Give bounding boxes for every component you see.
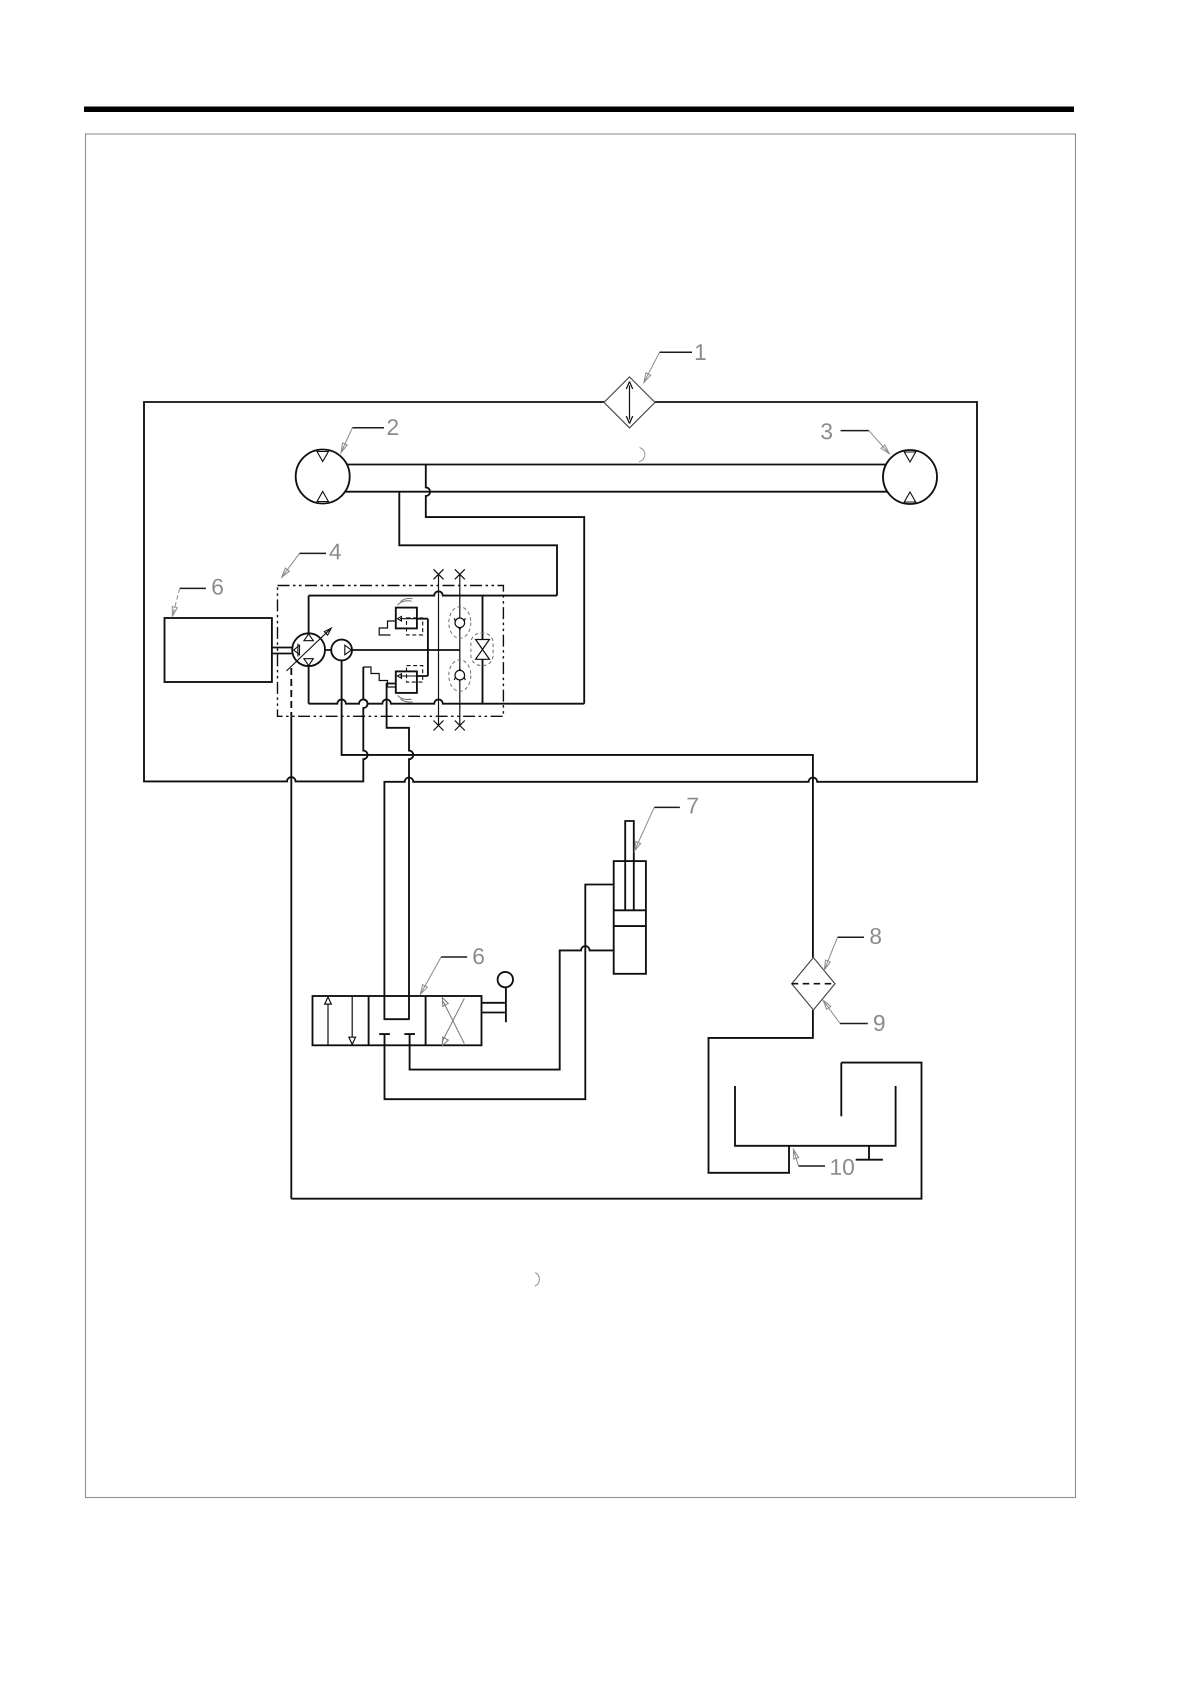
leader 7 arrowhead (634, 842, 640, 852)
leader 1 line (660, 351, 693, 353)
tank 10 basin (735, 1086, 896, 1146)
valve block inner left edge (308, 596, 310, 704)
test line left with X plugs (434, 569, 444, 730)
filter 8 diamond (792, 958, 835, 1011)
shutoff valve line (482, 596, 484, 704)
leader 10 pointer (793, 1149, 798, 1166)
wire pump outlet (325, 649, 460, 651)
motor 3 (883, 450, 937, 504)
label 4 (329, 544, 341, 560)
valve 6 right envelope crossed arrows (442, 998, 464, 1046)
leader 10 arrowhead (793, 1149, 798, 1159)
leader 10 line (799, 1165, 826, 1167)
cylinder 7 piston (614, 910, 646, 926)
test line right with X plugs (455, 569, 465, 730)
leader 3 pointer (869, 431, 890, 454)
leader 4 arrowhead (282, 568, 290, 577)
tank 10 inlet pipe (840, 1063, 842, 1117)
leader 6 valve pointer (420, 957, 441, 994)
leader 6 engine pointer (172, 588, 179, 616)
charge pump triangle (345, 645, 352, 655)
wire motor bottom line (345, 491, 888, 493)
wire valve A to cylinder cap (385, 885, 614, 1100)
check valve bottom seat (454, 669, 465, 680)
motor 2 (296, 450, 350, 504)
tank 10 vent (856, 1146, 883, 1160)
component 4 boundary dash-dot box (278, 586, 504, 717)
gauge circle (498, 972, 513, 987)
check valve bottom dashed ellipse (449, 660, 471, 692)
leader 6 engine arrowhead (172, 607, 177, 617)
relief valve top pilot box dashed (407, 618, 423, 635)
pump P1 triangles (304, 634, 313, 666)
leader 2 pointer (341, 428, 352, 453)
valve 6 left envelope arrows (325, 996, 356, 1045)
relief valve top adjust squiggle (398, 598, 413, 605)
cylinder 7 rod (625, 821, 634, 910)
leader 1 arrowhead (644, 373, 651, 383)
filter 1 diamond (604, 377, 655, 428)
leader 1 pointer (644, 352, 660, 382)
pump variable arrow (286, 628, 331, 671)
check valve top seat (454, 618, 465, 629)
label 1 (696, 344, 706, 360)
filter 1 arrow (626, 382, 632, 424)
relief valve bottom arrow (397, 674, 417, 679)
leader 6 valve line (441, 956, 467, 958)
page border frame (86, 134, 1076, 1498)
stray arc near motor line (639, 448, 645, 462)
stray paren glyph (535, 1273, 540, 1287)
label 3 (821, 423, 832, 439)
relief valve bottom spring (363, 667, 396, 687)
drive shaft (272, 648, 293, 654)
leader 9 line (840, 1023, 868, 1025)
leader 4 pointer (282, 553, 300, 577)
leader 2 arrowhead (341, 443, 347, 453)
cylinder 7 body (614, 861, 646, 974)
leader 8 line (838, 936, 865, 938)
wire motor top to block bottom-right (426, 465, 584, 704)
wire relief drain to valve port B (387, 684, 414, 1020)
check valve bottom ball (455, 670, 465, 680)
label 9 (874, 1015, 885, 1031)
wire motor bottom to block top-right (399, 492, 557, 596)
valve 6 center blocked ports (379, 1034, 415, 1045)
shutoff valve triangles (476, 640, 490, 660)
charge pump P2 (331, 640, 352, 661)
check valve top dashed ellipse (449, 607, 471, 639)
label 7 (688, 798, 698, 814)
wire main loop: pump drain to filter1 to valve6 feed (144, 402, 604, 781)
wire motor top line (347, 464, 886, 466)
wire valve B to cylinder rod side (410, 946, 614, 1069)
leader 9 arrowhead (823, 1000, 831, 1009)
top rule (84, 107, 1074, 113)
leader 7 pointer (634, 807, 654, 851)
wire filter8 to tank return (709, 1010, 813, 1173)
pump P1 (292, 633, 325, 666)
valve 6 dividers (369, 996, 426, 1045)
filter 8 element dashed (792, 983, 835, 985)
valve 6 actuator stubs (482, 987, 506, 1022)
motor 2 triangles (317, 452, 328, 502)
leader 6 engine line (180, 587, 206, 589)
wire top loop right of filter1 (384, 402, 977, 1019)
leader 9 pointer (823, 1000, 840, 1023)
relief valve top outlet (417, 619, 428, 676)
relief valve top arrow (397, 616, 417, 621)
label 2 (388, 419, 398, 435)
leader 8 pointer (824, 937, 837, 970)
leader 8 arrowhead (824, 960, 830, 970)
leader 3 arrowhead (881, 445, 889, 454)
valve block inner top edge (309, 591, 557, 595)
wire charge pump to filter8 (342, 660, 813, 957)
motor 3 triangles (904, 452, 915, 502)
leader 4 line (299, 552, 326, 554)
label 10 (831, 1159, 854, 1175)
relief valve bottom box (396, 671, 417, 693)
leader 7 line (654, 806, 680, 808)
relief valve top box (396, 608, 417, 629)
leader 2 line (352, 427, 384, 429)
relief valve bottom pilot box dashed (407, 666, 423, 683)
shutoff valve dashed capsule (471, 633, 493, 666)
label 6 engine (212, 579, 223, 595)
valve block inner bottom edge (309, 699, 585, 703)
relief valve top spring (379, 621, 396, 635)
leader 3 line (841, 430, 869, 432)
wire case drain dashed (290, 668, 292, 716)
label 8 (870, 928, 881, 944)
leader 6 valve arrowhead (420, 985, 427, 995)
relief valve bottom adjust squiggle (398, 696, 413, 703)
shaft coupling (294, 644, 300, 657)
wire case drain vertical (290, 716, 292, 1198)
label 6 valve (473, 948, 484, 964)
engine box 6 (165, 618, 272, 682)
check valve top ball (455, 618, 465, 628)
tank 10 outer wall (291, 1063, 921, 1199)
valve 6 body (313, 996, 482, 1045)
